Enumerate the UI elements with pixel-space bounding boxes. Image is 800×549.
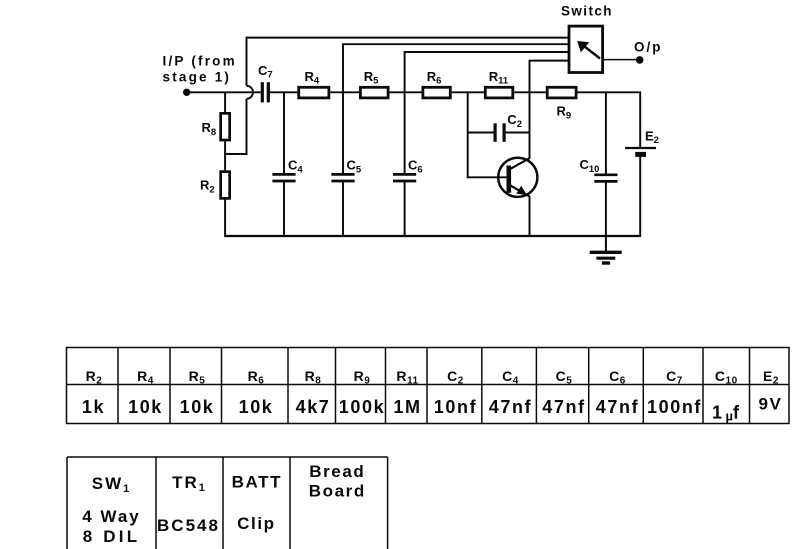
wire rail 1 to switch: [246, 37, 569, 39]
wire R4 to R5: [330, 91, 359, 93]
table 2 text: [82, 462, 366, 546]
svg-text:C5: C5: [556, 368, 573, 387]
wire C7 to R4: [268, 91, 297, 93]
wire base horizontal: [468, 176, 508, 178]
svg-text:1M: 1M: [393, 397, 421, 417]
wire C10 bottom stem: [605, 181, 607, 236]
svg-text:47nf: 47nf: [596, 397, 639, 417]
transistor TR1: [498, 158, 537, 197]
battery E2: [625, 148, 656, 154]
svg-text:C4: C4: [288, 158, 303, 176]
svg-text:47nf: 47nf: [489, 397, 532, 417]
wire rail 3 from R5-R6 node to switch: [404, 51, 569, 92]
svg-text:100k: 100k: [339, 397, 385, 417]
svg-text:R9: R9: [354, 368, 371, 387]
table 1 value row text: [82, 395, 783, 424]
svg-text:R5: R5: [364, 69, 379, 87]
svg-text:4k7: 4k7: [296, 397, 331, 417]
svg-text:R4: R4: [137, 368, 154, 387]
wire hop over input line: [247, 86, 254, 99]
resistor R5: [360, 87, 388, 98]
svg-text:R11: R11: [489, 69, 509, 87]
wire O/p: [604, 59, 637, 61]
svg-text:C2: C2: [507, 112, 522, 130]
svg-text:47nf: 47nf: [542, 397, 585, 417]
ground: [590, 236, 622, 263]
wire emitter: [529, 196, 531, 237]
svg-text:C4: C4: [502, 368, 519, 387]
capacitor C6: [393, 174, 416, 181]
svg-text:Board: Board: [309, 482, 366, 501]
svg-text:R6: R6: [248, 368, 265, 387]
svg-text:I/P (from: I/P (from: [163, 54, 237, 69]
capacitor C10: [594, 175, 617, 182]
label I/P (from stage 1): [163, 54, 237, 85]
wire input to C7: [187, 91, 261, 93]
wire C2 right lead: [504, 132, 529, 134]
capacitor C4: [272, 174, 295, 181]
table 1 header row text: [86, 368, 779, 387]
resistor R9: [547, 87, 576, 98]
svg-text:R8: R8: [305, 368, 322, 387]
svg-text:C7: C7: [258, 63, 273, 81]
svg-text:C5: C5: [347, 158, 362, 176]
svg-text:Bread: Bread: [309, 462, 365, 481]
wire C4 top stem: [283, 92, 285, 174]
wire R8 top stem: [224, 92, 226, 112]
svg-text:C2: C2: [447, 368, 464, 387]
svg-text:100nf: 100nf: [647, 397, 702, 417]
wire riser to rail 1: [246, 37, 248, 86]
svg-text:SW1: SW1: [92, 474, 132, 495]
svg-text:10k: 10k: [239, 397, 274, 417]
svg-text:R2: R2: [86, 368, 103, 387]
wire R9 to supply node: [578, 91, 642, 93]
svg-text:R5: R5: [189, 368, 206, 387]
resistor R6: [423, 87, 450, 98]
capacitor C7: [262, 82, 268, 102]
switch SW1: [569, 26, 603, 72]
svg-text:Clip: Clip: [237, 514, 276, 533]
svg-text:9V: 9V: [759, 395, 783, 414]
svg-text:4 Way: 4 Way: [82, 507, 141, 526]
wire C6 top stem: [404, 92, 406, 174]
wire base branch vertical: [467, 92, 469, 178]
wire C2 left lead: [468, 132, 494, 134]
svg-text:R9: R9: [557, 104, 572, 122]
table of parts: [67, 457, 388, 549]
svg-text:R2: R2: [200, 178, 215, 196]
wire collector riser: [529, 60, 531, 159]
svg-text:C10: C10: [580, 157, 600, 175]
output node: [636, 56, 644, 64]
svg-text:1µf: 1µf: [712, 403, 740, 424]
wire C4 bottom stem: [283, 181, 285, 237]
wire C6 bottom stem: [404, 181, 406, 237]
svg-text:E2: E2: [645, 128, 659, 146]
svg-text:O/p: O/p: [634, 40, 663, 55]
wire C5 bottom stem: [342, 181, 344, 237]
wire E2 bottom stem: [639, 156, 641, 236]
resistor R8: [221, 113, 230, 140]
svg-text:Switch: Switch: [561, 4, 613, 19]
resistor R2: [221, 172, 230, 199]
capacitor C2: [495, 123, 504, 142]
svg-text:C6: C6: [609, 368, 626, 387]
wire C10 top stem: [605, 92, 607, 175]
wire E2 top stem: [639, 92, 641, 147]
wire bottom rail: [224, 235, 641, 237]
svg-text:10k: 10k: [128, 397, 163, 417]
wire R8 to R2: [224, 141, 226, 170]
svg-text:R4: R4: [305, 69, 320, 87]
svg-text:E2: E2: [763, 368, 779, 387]
svg-text:C6: C6: [408, 158, 423, 176]
svg-text:C10: C10: [715, 368, 738, 387]
wire rail 4 from collector node to switch: [530, 60, 569, 62]
svg-text:TR1: TR1: [172, 473, 207, 494]
svg-text:stage 1): stage 1): [163, 70, 232, 85]
wire C5 top stem: [342, 92, 344, 174]
wire bias tap to riser: [224, 99, 246, 154]
svg-text:8 DIL: 8 DIL: [83, 527, 141, 546]
wire R11 to R9: [514, 91, 546, 93]
capacitor C5: [331, 174, 354, 181]
svg-text:BATT: BATT: [232, 473, 282, 492]
svg-text:10k: 10k: [180, 397, 215, 417]
input node: [183, 89, 190, 96]
svg-text:R6: R6: [427, 69, 442, 87]
wire R2 bottom stem: [224, 198, 226, 236]
wire R6 to R11: [452, 91, 484, 93]
svg-text:R11: R11: [396, 368, 418, 387]
svg-text:C7: C7: [666, 368, 683, 387]
resistor R4: [299, 87, 329, 98]
svg-text:BC548: BC548: [157, 516, 220, 535]
wire R5 to R6: [390, 91, 422, 93]
wire rail 2 from R4-R5 node to switch: [342, 43, 568, 92]
svg-text:10nf: 10nf: [434, 397, 477, 417]
svg-text:1k: 1k: [82, 397, 105, 417]
resistor R11: [485, 87, 513, 98]
table of component values: [67, 348, 790, 424]
svg-text:R8: R8: [202, 120, 217, 138]
